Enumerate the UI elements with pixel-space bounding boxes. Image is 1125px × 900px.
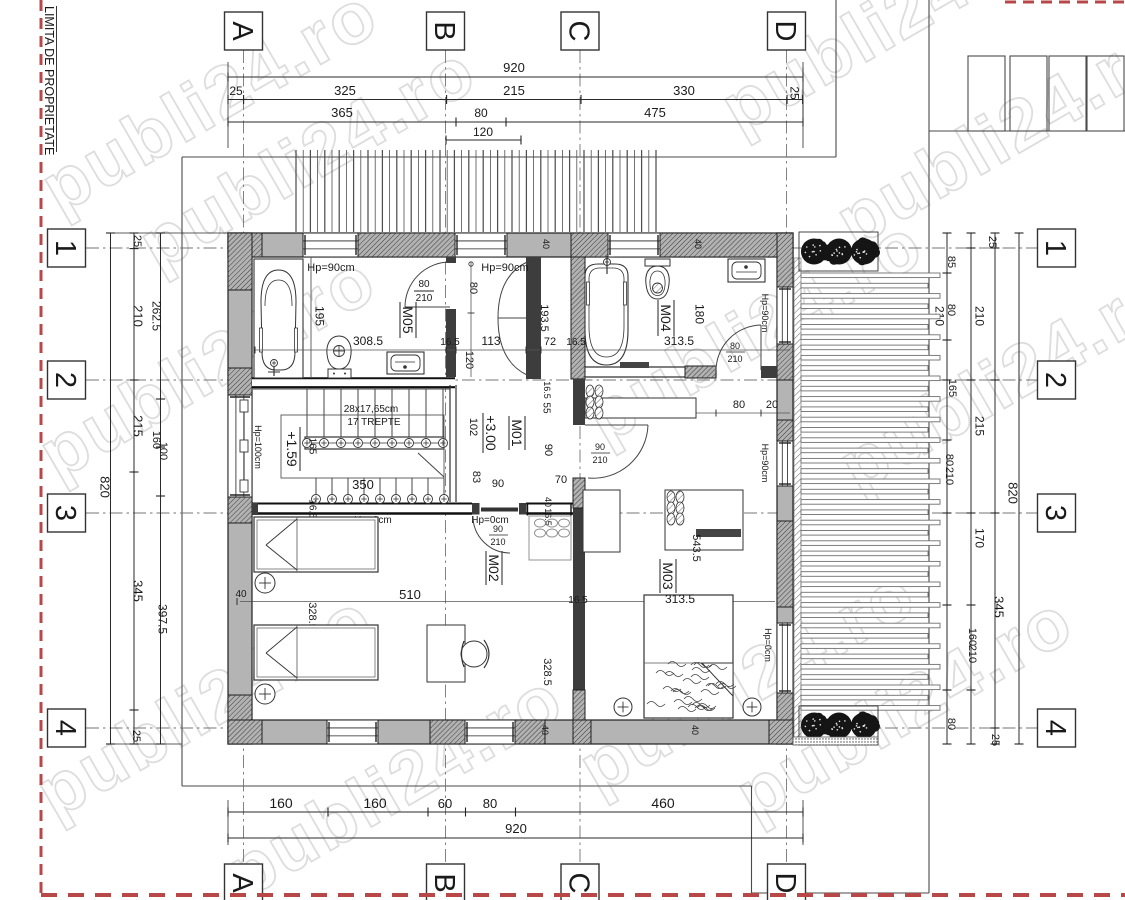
svg-text:543.5: 543.5 — [690, 534, 702, 562]
svg-text:313.5: 313.5 — [664, 334, 694, 348]
svg-text:M03: M03 — [660, 562, 676, 589]
svg-text:80: 80 — [943, 454, 955, 466]
svg-text:3: 3 — [49, 505, 81, 521]
svg-text:160: 160 — [269, 795, 293, 811]
svg-text:215: 215 — [130, 415, 145, 437]
svg-text:820: 820 — [1005, 482, 1020, 504]
svg-text:20: 20 — [766, 399, 778, 411]
svg-text:102: 102 — [467, 418, 479, 436]
svg-text:195: 195 — [313, 306, 327, 326]
svg-text:80: 80 — [733, 399, 745, 411]
svg-text:160: 160 — [363, 795, 387, 811]
svg-text:M05: M05 — [400, 306, 416, 333]
svg-text:210: 210 — [966, 645, 978, 663]
svg-text:345: 345 — [991, 596, 1006, 618]
svg-text:80: 80 — [945, 304, 957, 316]
svg-text:25: 25 — [986, 236, 998, 248]
svg-text:210: 210 — [592, 455, 607, 465]
svg-text:40: 40 — [540, 725, 550, 735]
svg-text:313.5: 313.5 — [665, 592, 695, 606]
svg-text:16.5: 16.5 — [543, 508, 553, 526]
svg-text:113: 113 — [481, 334, 500, 348]
svg-text:83: 83 — [470, 471, 482, 483]
svg-text:90: 90 — [542, 444, 554, 456]
svg-text:Hp=0cm: Hp=0cm — [763, 628, 773, 662]
svg-text:210: 210 — [727, 354, 742, 364]
svg-text:16.5: 16.5 — [568, 595, 588, 606]
svg-text:80: 80 — [467, 282, 479, 294]
svg-text:510: 510 — [399, 587, 421, 602]
svg-text:80: 80 — [418, 279, 430, 290]
svg-text:215: 215 — [503, 83, 525, 98]
svg-text:85: 85 — [945, 256, 957, 268]
svg-text:25: 25 — [131, 235, 143, 247]
svg-text:330: 330 — [673, 83, 695, 98]
svg-text:72: 72 — [544, 336, 556, 348]
svg-text:B: B — [428, 21, 460, 40]
svg-text:40: 40 — [693, 239, 703, 249]
svg-text:165: 165 — [946, 379, 958, 397]
svg-text:70: 70 — [555, 474, 567, 486]
svg-text:Hp=90cm: Hp=90cm — [760, 294, 770, 333]
svg-text:397.5: 397.5 — [156, 604, 170, 634]
svg-text:C: C — [563, 21, 595, 42]
svg-text:16.5: 16.5 — [542, 381, 552, 399]
svg-text:210: 210 — [973, 306, 987, 326]
svg-text:4: 4 — [49, 720, 81, 736]
svg-text:A: A — [226, 21, 258, 41]
svg-text:M01: M01 — [509, 419, 525, 446]
svg-text:C: C — [563, 873, 595, 894]
svg-text:2: 2 — [1039, 372, 1071, 388]
svg-text:A: A — [226, 873, 258, 893]
svg-text:B: B — [428, 873, 460, 892]
svg-text:160: 160 — [966, 628, 978, 646]
svg-text:25: 25 — [130, 730, 142, 742]
svg-text:Hp=90cm: Hp=90cm — [760, 444, 770, 483]
svg-text:345: 345 — [130, 580, 145, 602]
svg-text:165: 165 — [306, 438, 317, 455]
svg-text:120: 120 — [473, 125, 493, 139]
svg-text:M04: M04 — [658, 304, 674, 331]
svg-text:+3.00: +3.00 — [483, 415, 499, 451]
svg-text:262.5: 262.5 — [150, 301, 164, 331]
svg-text:180: 180 — [693, 304, 707, 324]
svg-text:+1.59: +1.59 — [284, 431, 300, 467]
svg-text:460: 460 — [651, 795, 675, 811]
svg-text:Hp=0cm: Hp=0cm — [471, 515, 509, 526]
svg-text:210: 210 — [490, 537, 505, 547]
svg-text:90: 90 — [492, 478, 504, 490]
svg-text:1: 1 — [49, 240, 81, 256]
svg-text:90: 90 — [595, 442, 605, 452]
svg-text:170: 170 — [973, 528, 987, 548]
svg-text:100: 100 — [157, 442, 169, 460]
svg-text:920: 920 — [503, 60, 525, 75]
svg-text:Hp=100cm: Hp=100cm — [253, 425, 263, 469]
svg-text:25: 25 — [788, 86, 802, 100]
svg-text:80: 80 — [474, 106, 488, 120]
svg-text:60: 60 — [438, 796, 452, 811]
svg-text:16.5: 16.5 — [566, 337, 586, 348]
svg-text:210: 210 — [130, 305, 145, 327]
svg-text:LIMITA DE PROPRIETATE: LIMITA DE PROPRIETATE — [42, 6, 56, 155]
svg-text:210: 210 — [416, 293, 433, 304]
svg-text:40: 40 — [235, 589, 247, 600]
svg-text:920: 920 — [505, 821, 527, 836]
svg-text:25: 25 — [989, 734, 1001, 746]
svg-text:120: 120 — [463, 351, 475, 369]
svg-text:365: 365 — [331, 105, 353, 120]
svg-text:325: 325 — [334, 83, 356, 98]
svg-text:28x17,65cm: 28x17,65cm — [344, 404, 398, 415]
svg-text:820: 820 — [97, 476, 112, 498]
svg-text:80: 80 — [483, 796, 497, 811]
svg-text:16.5: 16.5 — [306, 499, 317, 519]
svg-text:17 TREPTE: 17 TREPTE — [347, 417, 400, 428]
svg-text:Hp=90cm: Hp=90cm — [307, 262, 354, 274]
svg-text:475: 475 — [644, 105, 666, 120]
svg-text:M02: M02 — [486, 554, 502, 581]
svg-text:40: 40 — [543, 497, 553, 507]
svg-text:40: 40 — [541, 239, 551, 249]
svg-text:193.5: 193.5 — [538, 304, 550, 332]
svg-text:40: 40 — [690, 725, 700, 735]
svg-text:55: 55 — [540, 402, 551, 414]
svg-text:3: 3 — [1039, 505, 1071, 521]
svg-text:16.5: 16.5 — [440, 337, 460, 348]
svg-text:2: 2 — [49, 372, 81, 388]
svg-text:350: 350 — [352, 477, 374, 492]
svg-text:210: 210 — [943, 467, 955, 485]
svg-text:4: 4 — [1039, 720, 1071, 736]
svg-text:D: D — [769, 873, 801, 894]
svg-text:80: 80 — [730, 341, 740, 351]
svg-text:80: 80 — [945, 718, 957, 730]
svg-text:1: 1 — [1039, 240, 1071, 256]
svg-text:215: 215 — [973, 416, 987, 436]
svg-text:25: 25 — [229, 84, 243, 98]
svg-text:328.5: 328.5 — [541, 658, 553, 686]
svg-text:308.5: 308.5 — [353, 334, 383, 348]
svg-text:D: D — [769, 21, 801, 42]
svg-text:Hp=90cm: Hp=90cm — [481, 262, 528, 274]
